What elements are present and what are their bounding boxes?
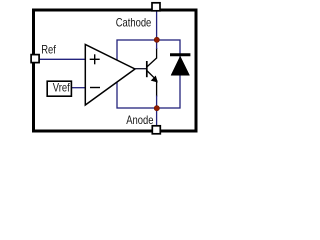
- emitter vertical: [156, 80, 158, 97]
- op-amp + input sign: [90, 54, 100, 64]
- wire: Vref box to op-amp - input: [72, 87, 85, 89]
- diode D1 cathode bar: [170, 53, 190, 56]
- wire: cathode terminal to top junction: [156, 12, 158, 41]
- collector vertical: [156, 48, 158, 59]
- svg-text:Anode: Anode: [126, 114, 153, 127]
- wire: inner blue box around transistor and diode: [117, 40, 180, 108]
- diode D1 triangle: [171, 56, 190, 75]
- collector diagonal: [147, 58, 157, 67]
- port terminal: Cathode: [152, 3, 160, 11]
- Vref source box: [47, 81, 71, 96]
- emitter diagonal: [147, 71, 157, 81]
- port terminal: Ref: [31, 55, 39, 63]
- node: bottom junction: [154, 106, 159, 111]
- outer block border: [34, 10, 197, 131]
- op-amp - input sign: [90, 87, 100, 89]
- wire: junction stub to collector: [156, 40, 158, 49]
- node: top junction: [154, 37, 159, 42]
- svg-text:Vref: Vref: [53, 82, 70, 95]
- svg-text:Cathode: Cathode: [116, 17, 152, 30]
- transistor Q1 (NPN): [147, 48, 157, 97]
- wire: op-amp output to transistor base: [135, 68, 147, 70]
- port terminal: Anode: [152, 126, 160, 134]
- wire: Ref terminal to op-amp + input: [40, 58, 86, 60]
- op-amp U1 triangle: [85, 45, 135, 106]
- wire: bottom junction to anode terminal: [156, 108, 158, 126]
- wire: emitter to bottom junction: [156, 96, 158, 109]
- svg-text:Ref: Ref: [41, 44, 56, 57]
- base bar: [146, 61, 148, 77]
- transistor emitter arrowhead: [151, 76, 157, 82]
